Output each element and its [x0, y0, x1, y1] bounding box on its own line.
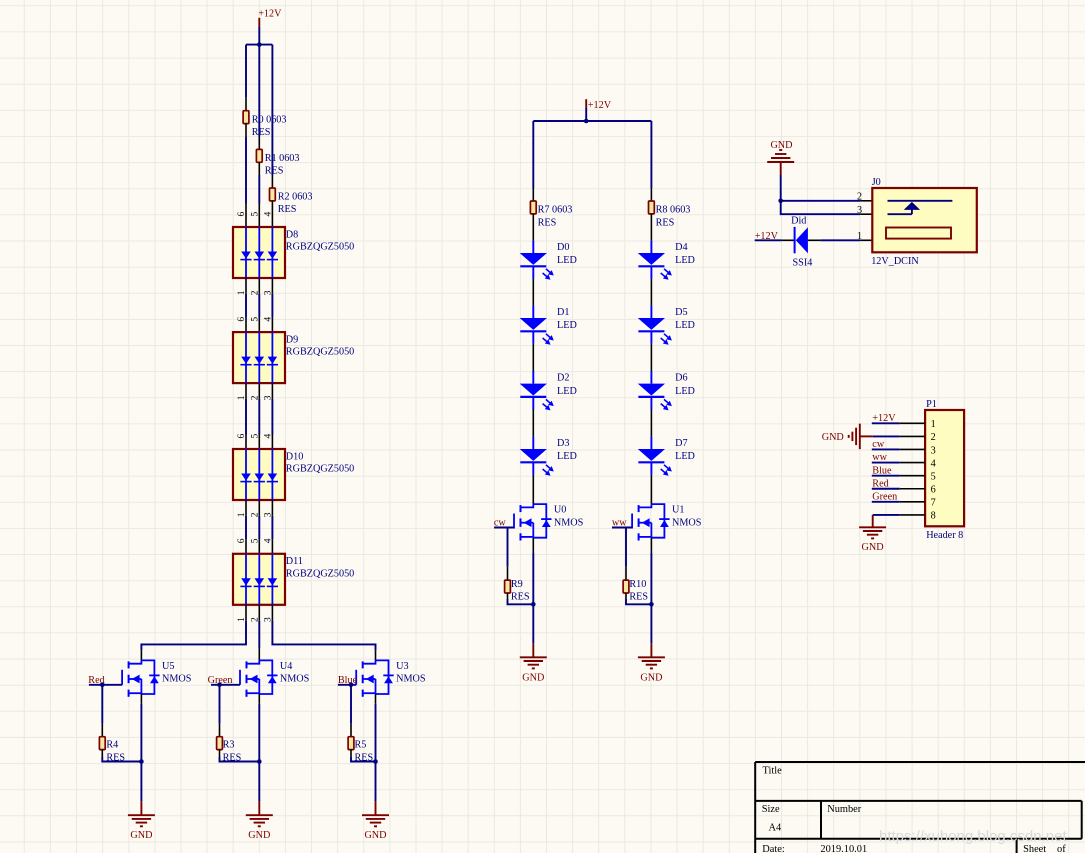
svg-text:GND: GND: [248, 830, 270, 841]
svg-text:RGBZQGZ5050: RGBZQGZ5050: [286, 568, 354, 579]
wire: [245, 278, 247, 294]
node Red/R4 junction: [100, 683, 105, 688]
connector J0 12V_DCIN: [872, 188, 977, 252]
resistor R3: [217, 737, 223, 750]
svg-text:R1 0603: R1 0603: [265, 153, 300, 164]
svg-text:R3: R3: [223, 739, 235, 750]
pin 7 of P1: [900, 501, 925, 503]
svg-text:GND: GND: [640, 672, 662, 683]
svg-text:Date:: Date:: [762, 844, 785, 853]
wire to D5: [650, 279, 652, 306]
svg-text:R5: R5: [355, 739, 367, 750]
ground (below P1): [859, 526, 886, 528]
wire LED to NMOS drain: [650, 475, 652, 504]
wire source to GND (middle): [532, 538, 534, 553]
node Green/R3 junction: [217, 683, 222, 688]
resistor R0: [243, 111, 249, 124]
wire: [872, 448, 900, 450]
wire to D1: [532, 279, 534, 306]
svg-text:R4: R4: [106, 739, 118, 750]
wire: [872, 462, 900, 464]
wire +12V to diode: [755, 239, 782, 241]
svg-text:+12V: +12V: [258, 8, 282, 19]
svg-text:RES: RES: [511, 592, 530, 603]
svg-text:LED: LED: [675, 320, 695, 331]
svg-text:4: 4: [264, 317, 274, 322]
transistor U5: [141, 660, 154, 694]
svg-text:2: 2: [857, 192, 862, 203]
svg-text:R2 0603: R2 0603: [278, 192, 313, 203]
LED package D9: [233, 332, 285, 383]
wire P1 pin 8 to GND: [873, 514, 900, 516]
LED D1: [532, 305, 534, 318]
wire: [872, 488, 900, 490]
transistor U1: [651, 504, 664, 538]
svg-text:1: 1: [857, 231, 862, 242]
wire to D7: [650, 410, 652, 437]
transistor U3: [376, 660, 389, 694]
connector P1 Header 8: [925, 410, 964, 526]
svg-text:D4: D4: [675, 242, 687, 253]
svg-text:cw: cw: [872, 439, 885, 450]
svg-text:R9: R9: [511, 579, 523, 590]
pin 6 of P1: [900, 488, 925, 490]
svg-text:12V_DCIN: 12V_DCIN: [871, 256, 919, 267]
svg-text:LED: LED: [557, 386, 577, 397]
svg-text:5: 5: [251, 317, 261, 322]
svg-text:https://xuhong.blog.csdn.net: https://xuhong.blog.csdn.net: [879, 828, 1067, 845]
svg-text:U4: U4: [280, 661, 292, 672]
wire R5 to source: [350, 750, 352, 757]
wire: [245, 500, 247, 516]
node source junction: [531, 602, 536, 607]
ground: [246, 814, 273, 816]
svg-text:5: 5: [251, 434, 261, 439]
svg-text:LED: LED: [557, 320, 577, 331]
svg-text:R7 0603: R7 0603: [538, 204, 573, 215]
wire source to GND (middle): [650, 538, 652, 553]
svg-text:RES: RES: [538, 217, 557, 228]
svg-text:U3: U3: [396, 661, 408, 672]
wire R0 to D8 pin 6: [245, 124, 247, 137]
svg-text:NMOS: NMOS: [280, 674, 310, 685]
wire R1 to D8 pin 5: [258, 162, 260, 175]
svg-text:RES: RES: [252, 127, 271, 138]
svg-text:5: 5: [251, 538, 261, 543]
wire D11 pin 1 to U5 drain: [245, 605, 247, 621]
title block: [755, 762, 1085, 853]
wire gate to R5: [350, 685, 352, 724]
wire gate to R4: [101, 685, 103, 724]
resistor R5: [348, 737, 354, 750]
LED D0: [532, 240, 534, 253]
node Blue/R5 junction: [349, 683, 354, 688]
svg-text:4: 4: [264, 538, 274, 543]
svg-text:RES: RES: [656, 217, 675, 228]
resistor R8: [649, 201, 655, 214]
wire +12V rail: [246, 44, 272, 46]
ground: [520, 656, 547, 658]
node +12V junction: [584, 119, 589, 124]
wire: [258, 278, 260, 294]
svg-text:Blue: Blue: [872, 465, 892, 476]
wire gate to R3: [219, 685, 221, 724]
wire: [258, 500, 260, 516]
svg-text:2019.10.01: 2019.10.01: [820, 844, 867, 853]
svg-text:4: 4: [931, 458, 936, 469]
svg-text:GND: GND: [130, 830, 152, 841]
wire rail to R7: [532, 121, 534, 188]
wire gate to R9: [507, 528, 509, 567]
ground: [638, 656, 665, 658]
svg-text:7: 7: [931, 498, 936, 509]
svg-text:6: 6: [237, 317, 247, 322]
svg-text:J0: J0: [872, 177, 881, 188]
wire ww to U1 gate: [612, 527, 632, 529]
svg-text:D6: D6: [675, 373, 687, 384]
ground: [128, 814, 155, 816]
wire R9 to source: [507, 593, 509, 599]
barrel jack sleeve contact: [886, 228, 951, 239]
resistor R1: [256, 149, 262, 162]
wire rail to R8: [650, 121, 652, 188]
svg-text:NMOS: NMOS: [554, 517, 584, 528]
svg-text:U1: U1: [672, 505, 684, 516]
svg-text:R8 0603: R8 0603: [656, 204, 691, 215]
svg-text:1: 1: [931, 419, 936, 430]
svg-text:RGBZQGZ5050: RGBZQGZ5050: [286, 242, 354, 253]
svg-text:2: 2: [931, 432, 936, 443]
svg-text:GND: GND: [822, 432, 844, 443]
LED D5: [650, 305, 652, 318]
node source junction: [139, 759, 144, 764]
svg-text:U5: U5: [162, 661, 174, 672]
svg-text:D0: D0: [557, 242, 569, 253]
wire to D2: [532, 344, 534, 371]
wire to D4: [650, 214, 652, 241]
svg-text:SSI4: SSI4: [793, 257, 813, 268]
LED D4: [650, 240, 652, 253]
svg-text:Title: Title: [763, 765, 783, 776]
svg-text:Size: Size: [762, 804, 780, 815]
svg-text:Green: Green: [872, 491, 897, 502]
svg-text:+12V: +12V: [872, 413, 896, 424]
wire GND to P1 pin 2: [873, 435, 900, 437]
LED D7: [650, 436, 652, 449]
svg-text:D3: D3: [557, 438, 569, 449]
svg-text:6: 6: [237, 212, 247, 217]
LED package D10: [233, 449, 285, 500]
svg-text:5: 5: [931, 471, 936, 482]
pin 4 of P1: [900, 462, 925, 464]
wire to D3: [532, 410, 534, 437]
wire: [872, 422, 900, 424]
svg-text:of: of: [1057, 844, 1066, 853]
LED package D8: [233, 227, 285, 278]
node: +12V rail junction: [257, 42, 262, 47]
resistor R10: [623, 580, 629, 593]
power port +12V (middle): [585, 99, 587, 108]
svg-text:NMOS: NMOS: [396, 674, 426, 685]
pin 1 of P1: [900, 422, 925, 424]
wire: [872, 475, 900, 477]
wire D11 pin 2 to U4 drain: [258, 605, 260, 621]
wire rail to R0: [245, 45, 247, 98]
svg-text:RES: RES: [629, 592, 648, 603]
resistor R2: [270, 188, 276, 201]
svg-text:Number: Number: [827, 804, 862, 815]
wire to J0 pin 2: [781, 200, 861, 202]
svg-text:D8: D8: [286, 229, 298, 240]
svg-text:LED: LED: [675, 386, 695, 397]
wire to D0: [532, 214, 534, 241]
wire: [258, 383, 260, 399]
node GND junction: [778, 199, 783, 204]
wire: [271, 383, 273, 399]
svg-text:D10: D10: [286, 451, 304, 462]
svg-text:3: 3: [857, 205, 862, 216]
svg-text:ww: ww: [872, 452, 887, 463]
svg-text:D11: D11: [286, 556, 303, 567]
svg-text:R0 0603: R0 0603: [252, 114, 287, 125]
wire: [271, 500, 273, 516]
svg-text:D9: D9: [286, 335, 298, 346]
svg-text:RGBZQGZ5050: RGBZQGZ5050: [286, 347, 354, 358]
wire to D6: [650, 344, 652, 371]
barrel jack switch symbol: [888, 200, 953, 202]
svg-text:A4: A4: [769, 822, 783, 833]
wire to J0 pin 3: [781, 201, 861, 214]
svg-text:Did: Did: [791, 216, 806, 227]
svg-text:GND: GND: [522, 672, 544, 683]
svg-text:D5: D5: [675, 307, 687, 318]
svg-text:NMOS: NMOS: [672, 517, 702, 528]
wire rail to R2: [271, 45, 273, 175]
LED D2: [532, 371, 534, 384]
svg-text:LED: LED: [675, 255, 695, 266]
svg-text:NMOS: NMOS: [162, 674, 192, 685]
svg-text:GND: GND: [364, 830, 386, 841]
wire: [245, 383, 247, 399]
pin 3 of P1: [900, 448, 925, 450]
node source junction: [649, 602, 654, 607]
wire cw to U0 gate: [494, 527, 514, 529]
svg-text:5: 5: [251, 212, 261, 217]
LED D6: [650, 371, 652, 384]
pin 5 of P1: [900, 475, 925, 477]
svg-text:4: 4: [264, 212, 274, 217]
svg-text:6: 6: [931, 485, 936, 496]
wire diode to J0 pin 1: [808, 239, 820, 241]
svg-text:3: 3: [931, 445, 936, 456]
wire Green to U4 gate: [211, 684, 240, 686]
svg-text:LED: LED: [557, 451, 577, 462]
svg-text:R10: R10: [629, 579, 646, 590]
wire R3 to source: [219, 750, 221, 757]
svg-text:Sheet: Sheet: [1023, 844, 1046, 853]
svg-text:LED: LED: [557, 255, 577, 266]
resistor R9: [505, 580, 511, 593]
wire GND to junction: [780, 175, 782, 201]
svg-text:Header 8: Header 8: [926, 530, 963, 541]
svg-text:4: 4: [264, 434, 274, 439]
ground: [362, 814, 389, 816]
pin 2 of P1: [900, 435, 925, 437]
diode Did SSI4: [794, 227, 796, 253]
wire R2 to D8 pin 4: [271, 201, 273, 228]
svg-text:D2: D2: [557, 373, 569, 384]
transistor U0: [533, 504, 546, 538]
LED package D11: [233, 554, 285, 605]
pin 8 of P1: [900, 514, 925, 516]
wire gate to R10: [625, 528, 627, 567]
wire +12V rail (middle): [533, 120, 651, 122]
svg-text:GND: GND: [862, 542, 884, 553]
wire source to GND: [375, 694, 377, 704]
wire source to GND: [140, 694, 142, 704]
svg-text:D7: D7: [675, 438, 687, 449]
resistor R4: [99, 737, 105, 750]
wire source to GND: [258, 694, 260, 704]
svg-text:D1: D1: [557, 307, 569, 318]
wire Red to U5 gate: [89, 684, 122, 686]
svg-text:+12V: +12V: [588, 100, 612, 111]
LED D3: [532, 436, 534, 449]
wire: [872, 501, 900, 503]
wire: [271, 278, 273, 294]
wire rail to R1: [258, 45, 260, 137]
svg-text:P1: P1: [926, 399, 937, 410]
svg-text:LED: LED: [675, 451, 695, 462]
svg-text:RES: RES: [278, 204, 297, 215]
wire R4 to source: [101, 750, 103, 757]
transistor U4: [259, 660, 272, 694]
svg-text:U0: U0: [554, 505, 566, 516]
node source junction: [257, 759, 262, 764]
svg-text:RES: RES: [265, 166, 284, 177]
svg-text:RGBZQGZ5050: RGBZQGZ5050: [286, 464, 354, 475]
svg-text:6: 6: [237, 538, 247, 543]
svg-text:Red: Red: [872, 478, 888, 489]
wire LED to NMOS drain: [532, 475, 534, 504]
wire R10 to source: [625, 593, 627, 599]
resistor R7: [530, 201, 536, 214]
node source junction: [373, 759, 378, 764]
wire Blue to U3 gate: [338, 684, 356, 686]
svg-text:8: 8: [931, 511, 936, 522]
wire D11 pin 3 to U3 drain: [271, 605, 273, 621]
svg-text:6: 6: [237, 434, 247, 439]
